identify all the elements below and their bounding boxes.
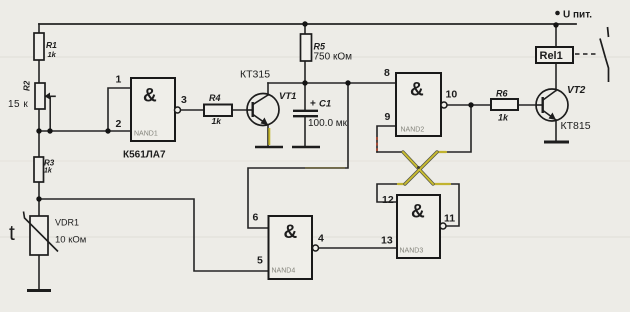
svg-text:&: & bbox=[411, 202, 425, 223]
svg-text:C1: C1 bbox=[319, 99, 331, 110]
svg-text:NAND1: NAND1 bbox=[134, 131, 158, 138]
svg-text:750 кОм: 750 кОм bbox=[314, 52, 353, 63]
svg-text:&: & bbox=[143, 86, 157, 107]
svg-text:R4: R4 bbox=[209, 93, 221, 103]
svg-text:U пит.: U пит. bbox=[563, 10, 592, 21]
svg-text:13: 13 bbox=[381, 235, 393, 247]
svg-text:VT1: VT1 bbox=[279, 91, 296, 102]
svg-text:R1: R1 bbox=[46, 40, 57, 50]
svg-text:100.0 мк: 100.0 мк bbox=[308, 118, 348, 129]
svg-text:+: + bbox=[310, 99, 316, 110]
svg-text:1k: 1k bbox=[498, 113, 509, 123]
svg-text:R5: R5 bbox=[314, 42, 326, 52]
svg-text:R2: R2 bbox=[23, 80, 32, 91]
svg-text:NAND4: NAND4 bbox=[272, 268, 296, 275]
svg-text:12: 12 bbox=[382, 194, 394, 206]
svg-text:8: 8 bbox=[384, 67, 390, 79]
svg-text:R3: R3 bbox=[44, 159, 55, 168]
svg-text:6: 6 bbox=[253, 212, 259, 224]
svg-text:5: 5 bbox=[257, 255, 263, 267]
svg-text:11: 11 bbox=[444, 213, 455, 225]
svg-text:1k: 1k bbox=[48, 50, 57, 59]
svg-text:&: & bbox=[410, 80, 424, 101]
svg-text:10 кОм: 10 кОм bbox=[55, 235, 86, 246]
svg-text:4: 4 bbox=[318, 233, 324, 245]
svg-text:К561ЛА7: К561ЛА7 bbox=[123, 150, 166, 161]
svg-text:VDR1: VDR1 bbox=[55, 218, 79, 228]
svg-text:9: 9 bbox=[385, 111, 391, 123]
svg-text:t: t bbox=[9, 222, 15, 245]
svg-text:&: & bbox=[284, 222, 298, 243]
svg-text:1k: 1k bbox=[44, 168, 53, 175]
svg-text:2: 2 bbox=[116, 118, 122, 130]
svg-text:R6: R6 bbox=[496, 89, 508, 99]
svg-text:15 к: 15 к bbox=[8, 99, 28, 110]
svg-text:NAND2: NAND2 bbox=[401, 127, 425, 134]
svg-text:10: 10 bbox=[446, 89, 458, 101]
svg-text:КТ315: КТ315 bbox=[240, 69, 270, 81]
svg-text:1: 1 bbox=[116, 74, 122, 86]
svg-text:КТ815: КТ815 bbox=[561, 120, 591, 132]
svg-text:VT2: VT2 bbox=[567, 85, 586, 96]
svg-text:1k: 1k bbox=[212, 116, 223, 126]
svg-text:3: 3 bbox=[181, 94, 187, 106]
svg-text:NAND3: NAND3 bbox=[400, 248, 424, 255]
svg-text:Rel1: Rel1 bbox=[540, 50, 563, 62]
